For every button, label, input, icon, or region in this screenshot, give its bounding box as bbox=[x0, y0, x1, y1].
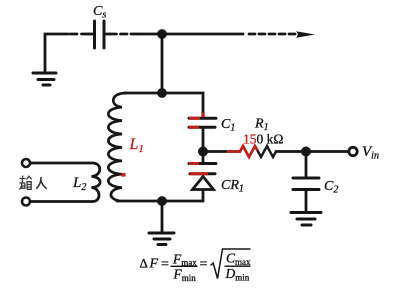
wire node down to C2 bbox=[305, 152, 308, 177]
transformer winding L2 bbox=[92, 163, 101, 202]
junction (C1-CR1 node) bbox=[198, 147, 208, 157]
formula fraction bar 2 bbox=[225, 266, 251, 267]
wire tank bottom to ground bbox=[161, 201, 164, 231]
junction (tank bottom) bbox=[157, 196, 167, 206]
red left of CR1 bar1 bbox=[189, 162, 199, 165]
input terminal wire (top) bbox=[31, 162, 93, 165]
formula fraction bar 1 bbox=[171, 266, 198, 267]
red left of C1 bottom plate bbox=[189, 126, 199, 129]
red left of C1 top plate bbox=[189, 117, 200, 120]
wire C2 to ground bbox=[305, 191, 308, 211]
input terminal wire (bottom) bbox=[31, 200, 93, 203]
wire tank bottom rail bbox=[117, 200, 203, 203]
formula radical bbox=[211, 249, 251, 279]
wire dashed to arrow bbox=[249, 33, 295, 36]
wire CR1 to bottom rail bbox=[202, 190, 205, 201]
terminal (input top) bbox=[22, 159, 30, 167]
label ru (Chinese) drawn strokes bbox=[37, 178, 47, 189]
red tap mark on L1 coil bbox=[121, 173, 126, 177]
capacitor C1 bbox=[189, 118, 216, 127]
wire dashed left of Cs bbox=[70, 33, 89, 36]
junction (tank top) bbox=[157, 88, 167, 98]
capacitor C2 bbox=[293, 178, 319, 190]
wire node to Vin terminal bbox=[306, 150, 349, 153]
label shu (Chinese) drawn strokes bbox=[19, 176, 32, 190]
varactor CR1 bars bbox=[189, 164, 216, 174]
junction (Vin node) bbox=[301, 147, 311, 157]
wire node to R1 bbox=[203, 150, 240, 153]
red wire + part of R1 bbox=[227, 146, 258, 157]
terminal (input bottom) bbox=[22, 198, 30, 206]
junction (top rail) bbox=[157, 29, 167, 39]
wire dashed right of Cs bbox=[105, 33, 111, 36]
svg-text:=: = bbox=[161, 257, 169, 272]
svg-text:Δ: Δ bbox=[140, 256, 148, 271]
wire R1 to Vin node bbox=[276, 150, 306, 153]
inductor L1 bbox=[108, 93, 126, 201]
svg-text:=: = bbox=[200, 257, 208, 272]
varactor CR1 triangle bbox=[193, 177, 214, 190]
red tick above C1 bbox=[201, 113, 204, 118]
terminal (Vin) bbox=[349, 147, 357, 155]
red CR1 bar2 bbox=[190, 172, 208, 175]
svg-text:150 kΩ: 150 kΩ bbox=[243, 132, 283, 147]
svg-text:F: F bbox=[149, 257, 159, 272]
ground (below tank) bbox=[149, 233, 174, 245]
wire top-left corner to ground bbox=[45, 34, 68, 71]
arrowhead bbox=[296, 31, 315, 37]
wire tank top rail bbox=[124, 93, 203, 117]
resistor R1 bbox=[240, 146, 276, 157]
wire solid top rail bbox=[138, 33, 243, 36]
ground (top-left) bbox=[33, 73, 56, 85]
red overlay marks bbox=[121, 113, 208, 175]
wire vertical from top junction bbox=[161, 34, 164, 93]
wire C1 bottom to junction node bbox=[202, 129, 205, 164]
capacitor Cs bbox=[95, 21, 105, 48]
ground (below C2) bbox=[291, 213, 321, 226]
